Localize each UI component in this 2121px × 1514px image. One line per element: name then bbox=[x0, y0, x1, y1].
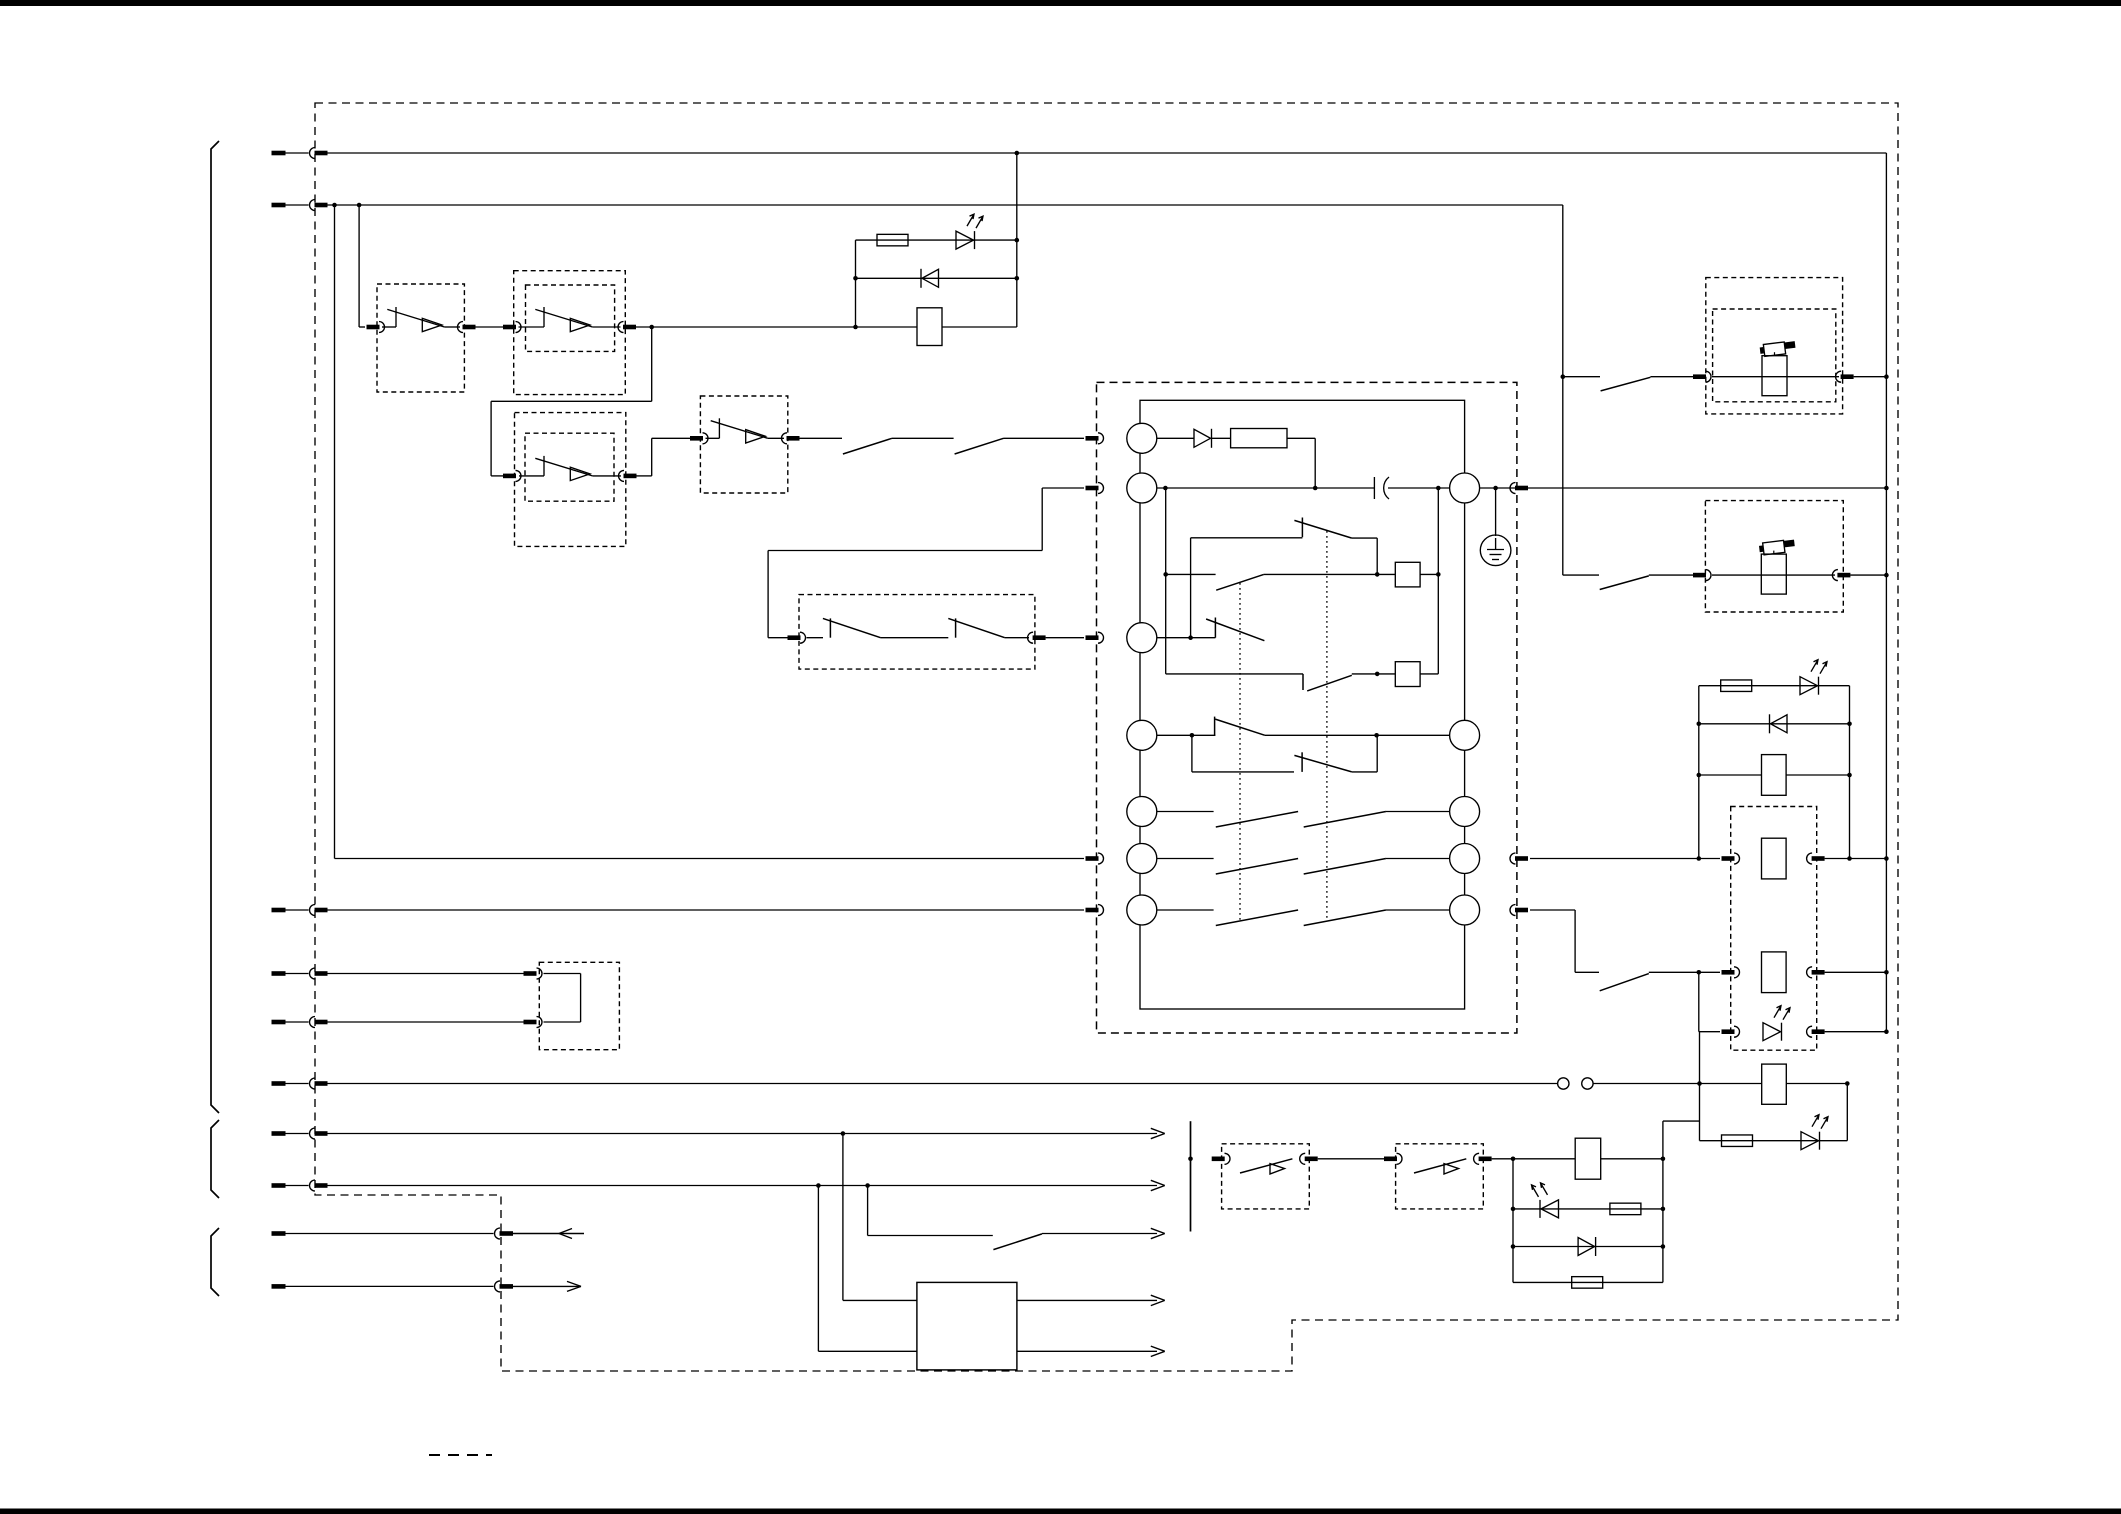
top border bar bbox=[0, 0, 2121, 6]
switch box B5 bbox=[799, 595, 1035, 670]
connector into boxA bbox=[1225, 1153, 1231, 1164]
node row E bypass bbox=[1190, 733, 1195, 738]
snubber2 diode row bbox=[1699, 723, 1850, 725]
relay coil RB1 bbox=[1762, 838, 1787, 879]
left harness bracket 3 bbox=[211, 1228, 219, 1296]
connector into box3 bbox=[503, 470, 521, 481]
node box2-out branch bbox=[649, 325, 654, 330]
contact row D lead bbox=[1166, 673, 1303, 675]
wire T6 mid bbox=[1593, 1083, 1762, 1085]
resistor R2 bbox=[1721, 680, 1752, 692]
node K1 diode row left bbox=[853, 276, 858, 281]
node K1 led row right bbox=[1015, 238, 1020, 243]
bypass blade bbox=[1294, 755, 1351, 772]
relay K1 right vertical bbox=[1016, 153, 1018, 327]
pin R1 bbox=[1450, 473, 1480, 503]
connector out of box3 bbox=[619, 470, 637, 481]
wire line2 horizontal bbox=[327, 204, 1563, 206]
wire led row left bbox=[1699, 1031, 1720, 1033]
arrow S6 bbox=[1151, 1228, 1165, 1238]
connector link top bbox=[524, 968, 543, 979]
resistor R4 bbox=[1610, 1203, 1641, 1215]
left harness bracket 1 bbox=[211, 141, 219, 1113]
wire row2 right bbox=[1388, 487, 1450, 489]
thermostat box B3 inner bbox=[525, 433, 614, 501]
relay coil k1 bbox=[1395, 562, 1420, 587]
switch S5 blade bbox=[1600, 974, 1649, 991]
connector out of box4 bbox=[782, 433, 800, 444]
box5 wire a bbox=[807, 637, 824, 639]
node K4 snubber left bbox=[1511, 1157, 1516, 1162]
thermostat symbol B2 bbox=[519, 307, 621, 332]
solenoid SV1 bbox=[1759, 341, 1796, 396]
LED LED4 bbox=[1801, 1115, 1828, 1150]
node rb2 left tap bbox=[1697, 970, 1702, 975]
connector module L1 bbox=[1086, 433, 1104, 444]
relay K1 left vertical bbox=[855, 240, 857, 327]
contact row F lead bbox=[1157, 811, 1214, 813]
wire sol1 to line1 bbox=[1854, 376, 1887, 378]
pin R4 bbox=[1450, 844, 1480, 874]
connector out of rb2 bbox=[1807, 967, 1825, 978]
wire K1 bottom row right bbox=[942, 326, 1017, 328]
arrow in (T9) bbox=[513, 1229, 584, 1239]
connector out of box5 bbox=[1028, 632, 1046, 643]
wire k1 right bbox=[1420, 573, 1438, 575]
snubber3 row bbox=[1700, 1140, 1848, 1142]
contact row A tick bbox=[1301, 518, 1303, 538]
terminal T6 bbox=[272, 1078, 328, 1089]
node ground tap bbox=[1493, 486, 1498, 491]
connector into box5 bbox=[788, 632, 806, 643]
node T6 snubber right bbox=[1845, 1081, 1850, 1086]
terminal T5 bbox=[272, 1017, 328, 1028]
contact row F blade2 bbox=[1304, 812, 1386, 828]
boxA sensor triangle bbox=[1270, 1164, 1285, 1174]
connector module L2 bbox=[1086, 483, 1104, 494]
snubber3 left vert bbox=[1699, 1032, 1701, 1141]
wire box5 to module bbox=[1046, 637, 1084, 639]
node snub4 leda bbox=[1511, 1207, 1516, 1212]
resistor R1 bbox=[877, 234, 908, 246]
thermal box BB bbox=[1396, 1144, 1484, 1209]
node T6 snubber left bbox=[1697, 1081, 1702, 1086]
wire line2 right vertical bbox=[1562, 205, 1564, 575]
node bar tap bbox=[1188, 1157, 1193, 1162]
terminal T9 bbox=[272, 1228, 514, 1239]
wire box1-box2 bbox=[476, 326, 504, 328]
ground symbol bbox=[1480, 488, 1511, 566]
connector into box4 bbox=[690, 433, 708, 444]
snubber4 left vert bbox=[1512, 1159, 1514, 1283]
contact row B blade bbox=[1216, 574, 1264, 590]
capacitor C1 plate1 bbox=[1373, 477, 1375, 499]
node fuse-row2 bbox=[1313, 486, 1318, 491]
contact row F blade1 bbox=[1216, 812, 1298, 828]
bypass right bbox=[1352, 735, 1377, 772]
bottom border bar bbox=[0, 1509, 2121, 1514]
connector into ledrow bbox=[1722, 1026, 1740, 1037]
connector into rb2 bbox=[1722, 967, 1740, 978]
contact row B lead bbox=[1166, 573, 1216, 575]
solenoid box SV2 bbox=[1705, 501, 1843, 612]
node snub2 l-mid bbox=[1697, 722, 1702, 727]
contact row D wire bbox=[1352, 673, 1396, 675]
wire T6 right bbox=[1786, 1083, 1847, 1085]
contact row D blade bbox=[1307, 675, 1352, 691]
connector module R4 bbox=[1510, 853, 1528, 864]
thermostat box B2 outer bbox=[514, 271, 626, 395]
wire boxB to K4 bbox=[1492, 1158, 1576, 1160]
node row D relay2 left bbox=[1375, 672, 1380, 677]
diode D1 bbox=[1194, 429, 1212, 448]
connector out of sol2 bbox=[1832, 570, 1850, 581]
switch S4 blade bbox=[1600, 576, 1649, 590]
wire sol2 inner bbox=[1712, 574, 1835, 576]
pin R3 bbox=[1450, 797, 1480, 827]
node sol2-line1 bbox=[1884, 573, 1889, 578]
terminal T4 bbox=[272, 968, 328, 979]
thermal box BA bbox=[1222, 1144, 1310, 1209]
pin R5 bbox=[1450, 895, 1480, 925]
relay coil K1 bbox=[917, 308, 942, 346]
arrow box out2 bbox=[1151, 1346, 1165, 1356]
node R1-line1 bbox=[1884, 486, 1889, 491]
wire k2 right bbox=[1420, 673, 1438, 675]
pin L4 bbox=[1127, 720, 1157, 750]
connector into rb1 bbox=[1722, 853, 1740, 864]
wire R4 out bbox=[1530, 858, 1720, 860]
terminal T2 (line N) bbox=[272, 200, 328, 211]
node snub4 dioda bbox=[1511, 1244, 1516, 1249]
wire line1 right vertical bbox=[1885, 153, 1887, 1032]
node T8 branch a bbox=[816, 1183, 821, 1188]
relay coil K2 bbox=[1762, 755, 1787, 796]
boxB blade bbox=[1414, 1159, 1466, 1173]
solenoid box SV1 outer bbox=[1706, 278, 1843, 414]
wire box input 2 bbox=[818, 1186, 917, 1352]
switch S1 blade bbox=[843, 438, 892, 454]
contact row E tick bbox=[1214, 717, 1216, 736]
arrow T7 bbox=[1151, 1128, 1165, 1138]
wire L1 to diode bbox=[1157, 437, 1194, 439]
relay coil RB2 bbox=[1762, 952, 1787, 993]
wire S2 to module bbox=[1004, 437, 1085, 439]
link U wire bbox=[544, 974, 581, 1023]
contact row A lead bbox=[1191, 538, 1303, 638]
wire box3 to box4 bbox=[637, 438, 691, 476]
box5 wire b bbox=[881, 637, 949, 639]
fuse F1 bbox=[1231, 429, 1287, 448]
wire S5 to rb2 bbox=[1649, 971, 1720, 973]
contact row G lead bbox=[1157, 858, 1214, 860]
pin L1 bbox=[1127, 423, 1157, 453]
connector module R5 bbox=[1510, 905, 1528, 916]
diode D4 bbox=[1578, 1237, 1596, 1256]
box5 blade1 bbox=[823, 618, 881, 637]
node snub2 r-low bbox=[1847, 773, 1852, 778]
pin L7 bbox=[1127, 895, 1157, 925]
wire sol1 inner bbox=[1712, 376, 1839, 378]
switch contact circles bbox=[1558, 1078, 1594, 1089]
node relayblock2-line1 bbox=[1884, 970, 1889, 975]
solenoid box SV1 inner bbox=[1713, 309, 1836, 402]
thermostat box B1 bbox=[377, 284, 464, 392]
wire box output 2 bbox=[1017, 1350, 1157, 1352]
node line1-relay branch bbox=[1015, 151, 1020, 156]
contact row D tick bbox=[1302, 674, 1304, 690]
contact row F right bbox=[1386, 811, 1450, 813]
wire L2 from loop bbox=[768, 488, 1084, 638]
row E bypass loop bbox=[1192, 735, 1294, 772]
pin R2 bbox=[1450, 720, 1480, 750]
diode D2 (reverse) bbox=[921, 269, 939, 288]
snubber2 top row bbox=[1699, 685, 1850, 687]
collector bar bbox=[1190, 1121, 1192, 1231]
connector module L7 bbox=[1086, 905, 1104, 916]
contact row A right bbox=[1352, 538, 1377, 574]
node relayblock1-line1 bbox=[1884, 856, 1889, 861]
contact row A blade bbox=[1294, 520, 1351, 538]
thermostat box B2 inner bbox=[526, 285, 615, 351]
snubber4 diode row bbox=[1513, 1246, 1663, 1248]
node relayK1 left bbox=[853, 325, 858, 330]
connector out of box1 bbox=[458, 322, 476, 333]
wire S1-S2 bbox=[892, 437, 954, 439]
node line2 branch a bbox=[332, 203, 337, 208]
diode D3 (reverse) bbox=[1770, 714, 1788, 733]
connector out of ledrow bbox=[1807, 1026, 1825, 1037]
node T8 branch b bbox=[865, 1183, 870, 1188]
module vert a bbox=[1165, 488, 1167, 674]
thermostat box B4 bbox=[700, 396, 787, 493]
connector module R1 bbox=[1510, 483, 1528, 494]
terminal T8 bbox=[272, 1180, 328, 1191]
contact row G blade2 bbox=[1304, 859, 1386, 875]
terminal T1 (line L) bbox=[272, 148, 328, 159]
terminal T10 bbox=[272, 1281, 514, 1292]
wire row2 left bbox=[1157, 487, 1375, 489]
node K4 row right bbox=[1661, 1157, 1666, 1162]
wire line1 horizontal bbox=[327, 152, 1886, 154]
LED LED2 bbox=[1800, 660, 1827, 695]
wire L3 stub bbox=[1157, 637, 1216, 639]
contact row E blade bbox=[1215, 719, 1265, 735]
node line2 branch b bbox=[357, 203, 362, 208]
relay coil k2 bbox=[1395, 662, 1420, 687]
node K4 ledrow right bbox=[1661, 1207, 1666, 1212]
linkage dotted line 2 bbox=[1326, 531, 1328, 921]
contact row B wire bbox=[1264, 573, 1396, 575]
wire T5 bbox=[327, 1021, 524, 1023]
resistor R5 bbox=[1572, 1277, 1603, 1289]
module vert b bbox=[1437, 488, 1439, 674]
wire T4 bbox=[327, 973, 524, 975]
contact row G blade1 bbox=[1216, 859, 1298, 875]
box5 blade2 bbox=[948, 618, 1005, 637]
wire to switch S1 bbox=[800, 437, 843, 439]
node vert a rowB bbox=[1163, 572, 1168, 577]
arrow out (T10) bbox=[513, 1281, 581, 1291]
wire T6 left bbox=[327, 1083, 1558, 1085]
connector into box2 bbox=[503, 322, 521, 333]
connector out of rb1 bbox=[1807, 853, 1825, 864]
snubber4 bottom row bbox=[1513, 1281, 1663, 1283]
boxB sensor triangle bbox=[1444, 1164, 1459, 1174]
resistor R3 bbox=[1722, 1135, 1753, 1147]
wire branch to module L6 bbox=[335, 205, 1085, 859]
thermostat symbol B1 bbox=[382, 307, 460, 332]
contact row E lead bbox=[1157, 734, 1216, 736]
snubber3 right vert bbox=[1846, 1084, 1848, 1141]
wire S3 to sol1 bbox=[1650, 376, 1693, 378]
wire bar to boxA bbox=[1212, 1157, 1225, 1162]
solenoid SV2 bbox=[1759, 539, 1796, 594]
contact row G right bbox=[1386, 858, 1450, 860]
node row2 branch down bbox=[1163, 486, 1168, 491]
thermostat symbol B3 bbox=[519, 456, 621, 481]
node T7 branch bbox=[841, 1131, 846, 1136]
thermostat symbol B4 bbox=[706, 418, 785, 443]
wire R1 out bbox=[1480, 487, 1887, 489]
snubber2 coil row bbox=[1699, 774, 1850, 776]
wire K4 right bbox=[1601, 1158, 1663, 1160]
contact row C tick bbox=[1214, 618, 1216, 638]
snubber4 led row bbox=[1513, 1208, 1663, 1210]
terminal T3 bbox=[272, 905, 328, 916]
wire sol2 to line1 bbox=[1850, 574, 1886, 576]
LED LED1 bbox=[956, 214, 983, 249]
contact row H blade2 bbox=[1304, 910, 1386, 926]
snubber2 right vertical bbox=[1849, 686, 1851, 859]
node snub2 right bbox=[1847, 856, 1852, 861]
wire ledrow right bbox=[1825, 1031, 1887, 1033]
connector out of boxA bbox=[1300, 1153, 1318, 1164]
switch S3 blade bbox=[1601, 377, 1651, 391]
wire sol2 from line2 bbox=[1563, 574, 1599, 576]
node row2 relay vert bbox=[1436, 486, 1441, 491]
box5 tick1 bbox=[829, 618, 831, 637]
node ledrow-line1 bbox=[1884, 1029, 1889, 1034]
contact row C blade bbox=[1206, 619, 1264, 641]
wire T7 row bbox=[327, 1133, 1157, 1135]
wire box input 1 bbox=[843, 1134, 917, 1301]
pin L5 bbox=[1127, 797, 1157, 827]
contact row H blade1 bbox=[1216, 910, 1298, 926]
snubber2 left vertical bbox=[1698, 686, 1700, 859]
linkage dotted line 1 bbox=[1239, 583, 1241, 921]
connector module L3 bbox=[1086, 632, 1104, 643]
wire T3 to module L7 bbox=[327, 909, 1084, 911]
connector out of sol1 bbox=[1836, 371, 1854, 382]
wire fuse down to row2 bbox=[1287, 438, 1315, 488]
LED LED3 bbox=[1763, 1006, 1790, 1041]
relay coil K3 bbox=[1762, 1064, 1787, 1104]
contact row E wire bbox=[1265, 734, 1450, 736]
wire R5 down bbox=[1575, 910, 1599, 972]
wire switch row bbox=[868, 1186, 993, 1236]
arrow box out1 bbox=[1151, 1295, 1165, 1305]
module U1 dashed box bbox=[1097, 382, 1517, 1033]
node row E right bbox=[1374, 733, 1379, 738]
link box dashed bbox=[539, 962, 619, 1049]
node L3-rowA bbox=[1188, 635, 1193, 640]
wire K1 diode row bbox=[856, 277, 1017, 279]
bypass tick bbox=[1301, 752, 1303, 772]
node snubber2 left bbox=[1697, 856, 1702, 861]
box5 wire c bbox=[1005, 637, 1029, 639]
connector into boxB bbox=[1384, 1153, 1402, 1164]
terminal T7 bbox=[272, 1128, 328, 1139]
connector out of box2 bbox=[618, 322, 636, 333]
wire box2 to box3 bbox=[491, 327, 652, 476]
outer dashed enclosure boundary bbox=[315, 103, 1898, 1371]
switch S6 blade bbox=[993, 1234, 1042, 1250]
node row B relay1 left bbox=[1375, 572, 1380, 577]
wire branch to inverter row bbox=[359, 205, 365, 327]
wire box output 1 bbox=[1017, 1299, 1157, 1301]
wire rb1 right bbox=[1825, 858, 1887, 860]
wire rb2 right bbox=[1825, 971, 1887, 973]
connector out of boxB bbox=[1474, 1153, 1492, 1164]
module U1 inner frame bbox=[1140, 400, 1465, 1009]
wire box2 output bbox=[636, 326, 917, 328]
connector into box1 bbox=[367, 322, 385, 333]
relay coil K4 bbox=[1575, 1138, 1601, 1179]
node sol1-line1 bbox=[1884, 374, 1889, 379]
connector into sol1 bbox=[1693, 371, 1711, 382]
wire K1 led row bbox=[856, 239, 1017, 241]
legend dashed-line sample bbox=[429, 1454, 492, 1456]
node snub2 l-low bbox=[1697, 773, 1702, 778]
contact row H right bbox=[1386, 909, 1450, 911]
node sol1 switch tap bbox=[1561, 374, 1566, 379]
left harness bracket 2 bbox=[211, 1120, 219, 1198]
wire T8 row bbox=[327, 1185, 1157, 1187]
wire jog to K4 block bbox=[1663, 1121, 1700, 1282]
node K1 diode row right bbox=[1015, 276, 1020, 281]
wire sol1 from tap bbox=[1563, 376, 1600, 378]
wire S6 to bus bbox=[1042, 1233, 1157, 1235]
pin L2 bbox=[1127, 473, 1157, 503]
pin L6 bbox=[1127, 844, 1157, 874]
LED LED5 (reverse) bbox=[1532, 1183, 1559, 1218]
connector into sol2 bbox=[1693, 570, 1711, 581]
boxA blade bbox=[1240, 1159, 1292, 1173]
wire boxA-boxB bbox=[1318, 1158, 1384, 1160]
connector module L6 bbox=[1086, 853, 1104, 864]
connector link bottom bbox=[524, 1017, 543, 1028]
pin L3 bbox=[1127, 623, 1157, 653]
switch S2 blade bbox=[955, 438, 1004, 454]
node k1 right bbox=[1436, 572, 1441, 577]
node K4 dioderow right bbox=[1661, 1244, 1666, 1249]
wire diode-fuse bbox=[1212, 437, 1231, 439]
contact row H lead bbox=[1157, 909, 1214, 911]
power unit box bbox=[917, 1282, 1017, 1370]
wire S4 to sol2 bbox=[1649, 574, 1693, 576]
wire R5 out bbox=[1530, 909, 1575, 911]
node snub2 r-mid bbox=[1847, 722, 1852, 727]
relay contact block dashed box bbox=[1731, 807, 1817, 1051]
capacitor C1 plate2 bbox=[1384, 477, 1389, 499]
arrow T8 bbox=[1151, 1180, 1165, 1190]
led row left vert bbox=[1698, 972, 1700, 1031]
box5 tick2 bbox=[955, 618, 957, 637]
thermostat box B3 outer bbox=[515, 413, 626, 547]
